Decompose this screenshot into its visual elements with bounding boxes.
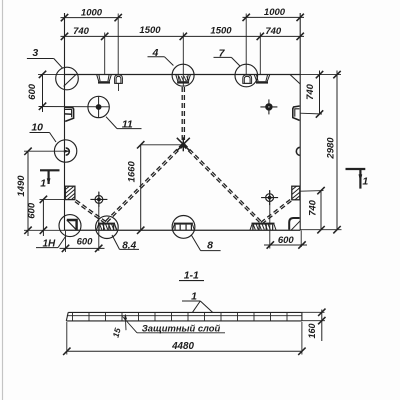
extension top edge to right xyxy=(300,74,341,76)
detail circle 7 xyxy=(235,64,258,87)
extension line x=260.3 xyxy=(259,33,261,75)
svg-text:1-1: 1-1 xyxy=(184,269,199,281)
corner detail bottom-left square xyxy=(67,220,77,230)
plan outline top edge xyxy=(65,74,301,76)
lifting loop embed in circle 4 xyxy=(176,75,178,82)
section bar outline xyxy=(68,311,302,313)
hole target top-right xyxy=(260,106,277,108)
detail circle 3 xyxy=(56,67,79,90)
left dim 600 upper xyxy=(42,74,44,112)
bottom dim 600 right xyxy=(264,244,307,246)
section bar hatch ticks xyxy=(72,312,74,321)
detail circle 1H xyxy=(59,215,81,237)
left dim 600 lower xyxy=(42,199,44,236)
svg-text:740: 740 xyxy=(265,26,282,37)
table embed bottom-right xyxy=(252,223,275,225)
sling dashed diagonal apex to bottom-right embed xyxy=(183,145,261,224)
sling dashed diagonal apex to bottom-left embed xyxy=(105,144,183,222)
apex star mark xyxy=(177,138,190,151)
hole target bottom-left xyxy=(90,198,107,200)
sling dashed diagonal bottom-right embed to right edge bracket xyxy=(262,201,292,224)
extension bar top right xyxy=(302,311,325,313)
extension circle 10 axis xyxy=(24,150,69,152)
left dim 1490 xyxy=(27,151,29,236)
dim 4480 xyxy=(67,350,302,352)
mid dim 1660 xyxy=(140,145,142,231)
sling dashed diagonal bottom-left embed to left edge bracket xyxy=(76,200,106,222)
right dim 740 upper xyxy=(319,71,321,115)
svg-text:8: 8 xyxy=(207,240,213,252)
dim line 1000 top-left xyxy=(61,17,123,19)
extension bottom edge to left xyxy=(24,229,65,231)
detail circle 4 xyxy=(172,64,194,86)
plan outline bottom edge xyxy=(65,229,301,231)
anchor dome embed in circle 7 xyxy=(243,75,252,84)
extension left y=106.4 to circle 11 xyxy=(39,106,110,108)
svg-text:160: 160 xyxy=(307,323,317,338)
svg-text:600: 600 xyxy=(278,235,295,246)
svg-text:1: 1 xyxy=(362,175,368,187)
extension left end of bar xyxy=(66,322,68,355)
right dim 2980 xyxy=(336,71,338,230)
svg-text:740: 740 xyxy=(305,83,316,100)
svg-text:1: 1 xyxy=(40,178,46,190)
svg-text:1490: 1490 xyxy=(16,175,27,197)
svg-text:15: 15 xyxy=(111,327,123,339)
corner chamfer top-left xyxy=(64,75,76,87)
svg-text:600: 600 xyxy=(26,202,37,219)
detail circle 10 xyxy=(54,140,76,162)
section marker 1 right xyxy=(346,168,366,170)
svg-text:4480: 4480 xyxy=(171,341,194,352)
detail circle 8 xyxy=(172,216,195,239)
table embed bottom-center (circle 8) xyxy=(174,223,193,225)
leader 15 arrow xyxy=(124,315,127,330)
sleeve hook inside circle 10 xyxy=(66,148,70,155)
svg-text:1000: 1000 xyxy=(264,7,286,18)
svg-text:600: 600 xyxy=(77,237,94,248)
crosshair of circle 11 xyxy=(98,97,100,118)
edge bracket left lower (hatched) xyxy=(65,186,75,199)
edge bracket right lower (hatched) xyxy=(292,186,300,200)
section marker 1 left xyxy=(40,169,60,171)
extension bar bottom right xyxy=(302,320,325,322)
corner chamfer top-right xyxy=(290,75,300,85)
scan edge artifact xyxy=(2,0,4,400)
extension right edge below plan xyxy=(300,230,302,247)
extension top edge to left xyxy=(38,73,65,75)
svg-text:600: 600 xyxy=(27,83,38,100)
extension apex to 1660 line xyxy=(141,144,184,146)
edge half-circle sleeve right xyxy=(296,147,299,155)
svg-text:Защитный слой: Защитный слой xyxy=(142,322,221,333)
table embed bottom-left (circle 8.4) xyxy=(98,223,115,225)
extension line x=104.7 xyxy=(104,33,106,76)
detail circle 11 xyxy=(88,96,109,117)
svg-text:740: 740 xyxy=(307,199,318,216)
plan outline right edge xyxy=(299,13,301,230)
svg-text:1660: 1660 xyxy=(127,161,138,183)
corner bracket bottom-right xyxy=(289,218,299,230)
note zashchitny sloy xyxy=(123,317,138,333)
corner chamfer bottom-right xyxy=(291,221,300,231)
anchor dome embed top (1000 mark) xyxy=(115,75,123,84)
edge bracket left upper xyxy=(65,107,74,121)
extension bottom edge to right xyxy=(300,229,341,231)
stub line below dome embed xyxy=(118,83,120,91)
extension right y=190.6 xyxy=(300,190,323,193)
sling dashed vertical from circle 4 to apex xyxy=(181,87,183,144)
lifting loop embed top-left (740 mark) xyxy=(97,75,99,82)
extension left y=199.4 xyxy=(40,198,66,200)
dim line chain 740-1500-1500-740 top xyxy=(61,35,305,37)
svg-text:3: 3 xyxy=(32,47,38,59)
svg-text:1500: 1500 xyxy=(210,26,232,37)
extension line x=183.3 through circle 4 xyxy=(182,33,184,87)
extension line x=118.2 xyxy=(117,14,119,76)
extension right y=114 xyxy=(300,112,322,115)
extension x=98.8 target to dim xyxy=(98,192,100,252)
extension x=269.8 target to dim xyxy=(269,191,271,249)
lifting loop embed top-right (740 mark) xyxy=(254,75,256,82)
bottom dim 600 left xyxy=(60,247,105,249)
dim 160 right xyxy=(321,310,323,342)
extension right end of bar xyxy=(301,322,303,355)
right dim 740 lower xyxy=(320,191,322,230)
hole target bottom-right xyxy=(261,197,278,199)
svg-text:2980: 2980 xyxy=(325,137,336,160)
plan outline left edge xyxy=(64,13,66,230)
svg-text:10: 10 xyxy=(31,122,43,134)
detail circle 8.4 xyxy=(96,216,119,239)
extension x=65.5 below plan xyxy=(65,231,67,252)
svg-text:1500: 1500 xyxy=(139,25,161,36)
extension line x=246.2 through circle 7 xyxy=(245,14,247,76)
svg-text:1000: 1000 xyxy=(81,8,103,19)
svg-text:740: 740 xyxy=(73,26,90,37)
dim line 1000 top-right xyxy=(243,16,305,18)
edge bracket right upper xyxy=(293,106,300,120)
